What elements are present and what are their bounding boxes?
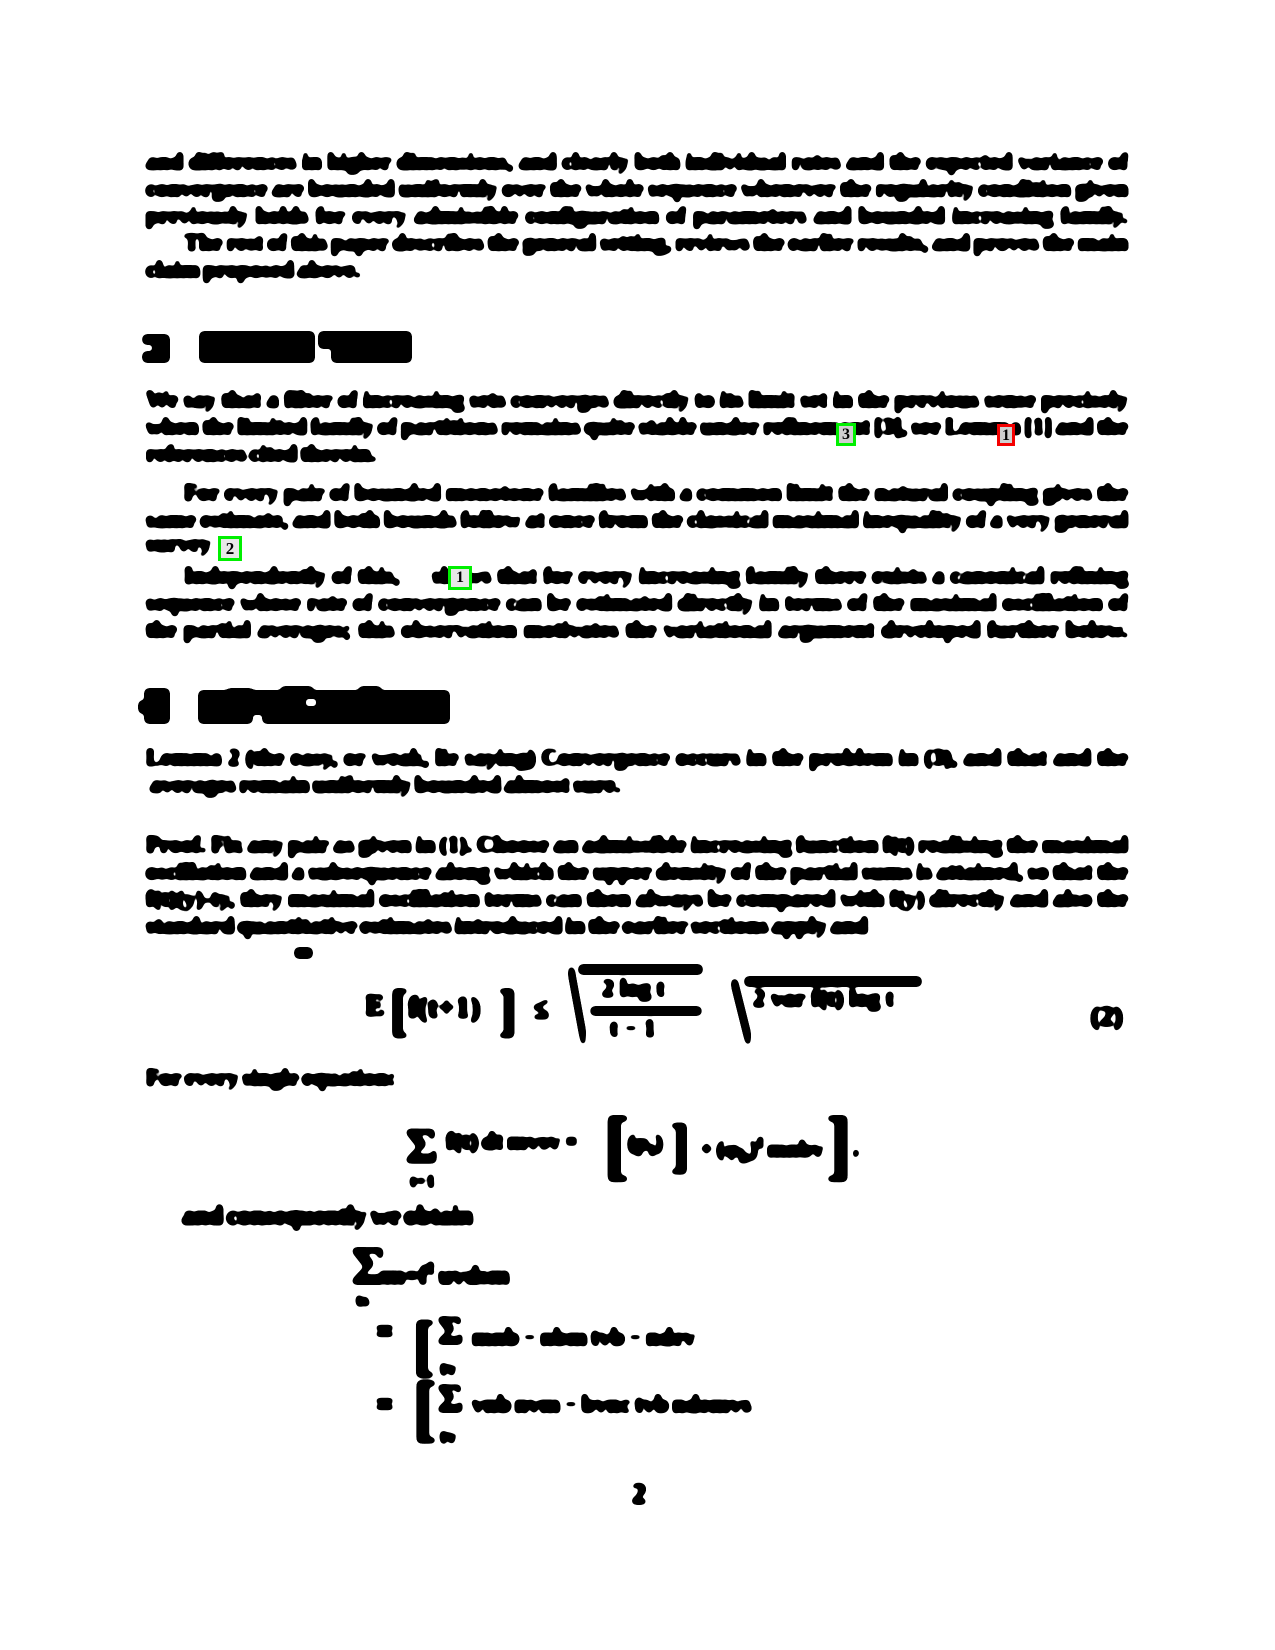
equation (1) fraction denominator [610, 1016, 656, 1043]
proof line 4 [146, 912, 868, 939]
reference box red 1 [997, 424, 1015, 446]
equation (2) content [446, 1129, 578, 1156]
equation (1) sqrt 1 radical [570, 968, 584, 1044]
equation (1) fraction bar [592, 1008, 700, 1014]
text before derivation [182, 1202, 473, 1229]
section heading 4 : digit 4 [146, 690, 168, 722]
section heading 3 : word Work [320, 333, 410, 347]
paragraph 1 line 1 [146, 148, 1128, 175]
section 3 paragraph 3 line 2 [146, 589, 1128, 616]
proof line 3 [146, 885, 1128, 912]
equation (1) sqrt 2 radical [733, 980, 749, 1044]
section 3 paragraph 1 line 3 [146, 440, 376, 467]
section heading 3 : digit 3 [144, 336, 168, 361]
paragraph 2 line 2 [146, 256, 361, 283]
text between equations [146, 1064, 396, 1091]
equation (2) sigma [406, 1133, 437, 1160]
derivation line 3 [375, 1391, 394, 1418]
citation box green 3 [836, 423, 856, 446]
section 3 paragraph 1 line 1 [146, 386, 1128, 413]
section 3 paragraph 2 line 3 [146, 530, 211, 557]
equation (2) big bracket left [604, 1132, 629, 1159]
section 3 paragraph 3 line 3 [146, 616, 1128, 643]
section 3 paragraph 1 line 2 [146, 413, 1128, 440]
section 3 paragraph 2 line 2 [146, 506, 1128, 533]
section heading 3 : word Related [201, 333, 313, 361]
derivation line 1 sigma [352, 1253, 386, 1280]
equation (1) fraction numerator [602, 976, 665, 1003]
lim subscript blob of proof text [296, 949, 311, 957]
paragraph 1 line 3 [146, 202, 1128, 229]
proof line 1 [146, 831, 1128, 858]
derivation line 2 [375, 1318, 394, 1345]
equation (1) sqrt 2 content [753, 986, 894, 1013]
citation box green 2 [218, 536, 242, 561]
lemma line 2 [150, 771, 621, 798]
page number [632, 1481, 646, 1508]
paragraph 1 line 2 [146, 175, 1128, 202]
citation box green 1 [448, 566, 472, 590]
paragraph 2 line 1 [184, 229, 1128, 256]
equation (2) big bracket right [826, 1132, 851, 1159]
equation (1) left part [365, 992, 385, 1019]
equation (1) number [1091, 1003, 1122, 1030]
section 3 paragraph 2 line 1 [184, 479, 1128, 506]
lemma line 1 [146, 744, 1128, 771]
section 3 paragraph 3 line 1 [184, 562, 1128, 589]
section heading 4 : words A Proof Sketch [200, 692, 448, 722]
proof line 2 [146, 858, 1128, 885]
